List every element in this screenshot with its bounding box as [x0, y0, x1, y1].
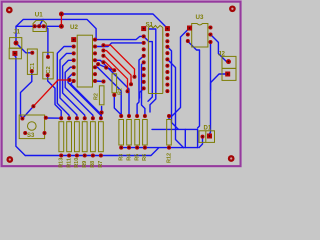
- J2 pad 1: [226, 59, 231, 64]
- svg-text:S1: S1: [146, 22, 154, 29]
- wire U3.r2 to J2.1: [211, 35, 229, 62]
- R1 pads: [112, 68, 116, 72]
- wire S1 left low stub: [140, 88, 144, 98]
- J1 pad 1: [14, 41, 19, 46]
- wire R2 bottom to pad: [101, 107, 103, 113]
- S1 right pad 1 square: [165, 26, 170, 31]
- component J1 outline: [9, 38, 22, 59]
- R2 pads: [102, 80, 106, 84]
- component D1 outline: [199, 131, 215, 143]
- wire net VCC top horizontal: [61, 14, 167, 28]
- component C2 outline: [43, 52, 53, 79]
- svg-text:U3: U3: [196, 14, 204, 21]
- via pads red column: [133, 75, 137, 79]
- wire via3 R1 bottom to R3: [114, 95, 121, 115]
- component S3 outline: [19, 115, 44, 139]
- via pad red pair near U2 pin7: [68, 78, 72, 82]
- via column right of U2: [101, 43, 105, 47]
- wire S1 right to right bus: [167, 59, 183, 147]
- D1 pad 1: [201, 135, 205, 139]
- board edge border: [2, 2, 241, 166]
- C1 pad top: [30, 51, 34, 55]
- component J2 outline: [222, 56, 236, 80]
- wire U1.3 to C2 top: [46, 26, 49, 57]
- component U2 outline: [77, 35, 92, 87]
- wire C2 bottom down: [48, 75, 62, 118]
- svg-text:R9: R9: [82, 161, 88, 168]
- resistor top pads left group: [59, 116, 63, 120]
- component C1 outline: [27, 49, 37, 74]
- wire U2.15 to R2 top: [95, 80, 104, 83]
- U3 pad1 square: [187, 26, 192, 31]
- wire bus y19.4: [16, 19, 96, 39]
- wire bottom bus right: [121, 147, 197, 149]
- svg-text:C1: C1: [30, 62, 36, 70]
- U1 pad 3: [42, 24, 46, 28]
- board edge outer glow: [1, 1, 242, 167]
- mounting hole top-right: [229, 5, 236, 12]
- svg-text:R7: R7: [98, 161, 104, 168]
- resistor row right group R3 R4 R5 R6: [119, 120, 171, 146]
- red wire via2 to red via b: [103, 51, 131, 85]
- svg-text:R1: R1: [118, 88, 124, 95]
- wire J2.2 to vertical: [211, 74, 228, 90]
- svg-text:R6: R6: [142, 154, 148, 161]
- svg-text:U2: U2: [70, 24, 78, 31]
- wire S1 inner vertical: [149, 29, 156, 112]
- mounting hole top-left: [6, 7, 13, 14]
- svg-text:R3: R3: [119, 154, 125, 161]
- svg-text:R13: R13: [58, 158, 64, 168]
- wire U2.8 right to S1: [95, 36, 144, 39]
- D1 pad 2 square: [207, 134, 212, 139]
- C2 pad bottom: [46, 73, 50, 77]
- via pad red S3 net: [31, 104, 35, 108]
- resistor row left group R13 R11 R10 R9 R8 R7: [59, 122, 103, 152]
- wire via to S3.1: [22, 106, 33, 118]
- svg-text:C2: C2: [46, 66, 52, 73]
- wire U1 row horizontal: [16, 25, 61, 27]
- component R2 outline: [99, 86, 104, 105]
- wire U2.2 fan: [57, 47, 73, 119]
- svg-text:R11: R11: [66, 158, 72, 168]
- component U1 outline: [33, 20, 46, 31]
- wire U2.3 fan: [60, 53, 77, 118]
- red wire via4 short: [103, 62, 114, 71]
- right group bottom pads: [119, 146, 123, 150]
- pad pair near top (net pad): [59, 12, 64, 17]
- S3 pads: [20, 117, 24, 121]
- wire U3.r3 to D1.2: [210, 42, 211, 134]
- component S1 outline: [148, 26, 162, 94]
- svg-text:R12: R12: [166, 153, 172, 163]
- S1 left pad 1 square: [141, 26, 146, 31]
- component U3 outline: [192, 24, 208, 48]
- wire S1 inner vertical 2: [144, 36, 153, 101]
- wire U3.1 down to R12: [169, 28, 190, 116]
- wire U2.6 fan: [68, 74, 101, 118]
- wire R12 top up: [168, 116, 170, 119]
- wire U2.12 to R4: [95, 60, 129, 116]
- mounting hole bottom-left: [6, 156, 13, 163]
- C1 pad bottom: [30, 69, 34, 73]
- U2 right pads: [93, 38, 97, 42]
- right group top pads: [119, 114, 123, 118]
- U1 pad 2: [37, 24, 41, 28]
- wire U1.2 stub to bus: [39, 19, 43, 26]
- wire S1 left to R6: [142, 62, 145, 116]
- board background: [0, 0, 244, 169]
- via pads diagonal: [96, 62, 100, 66]
- svg-text:R8: R8: [90, 161, 96, 168]
- component R1 outline: [112, 74, 117, 93]
- svg-text:R10: R10: [74, 158, 80, 168]
- U2 left pads: [72, 45, 76, 49]
- U1 pad 1: [33, 24, 37, 28]
- C2 pad top: [46, 55, 50, 59]
- wire via diagonal link: [98, 64, 114, 70]
- wire U2.9 to S1: [95, 43, 144, 47]
- wire C1 bottom to S3.1: [21, 73, 32, 119]
- wire S3.2 to R13 top: [46, 117, 61, 119]
- S1 left pads: [142, 34, 146, 38]
- wire J1.1 up to U1 row: [15, 26, 17, 43]
- J1 pad 2 square: [12, 51, 17, 56]
- wire mid bus to D1 corner: [152, 129, 198, 147]
- S1 right pads: [165, 33, 169, 37]
- wire R2 bottom to R7 top: [100, 113, 103, 119]
- wire U2.13 to R3: [95, 67, 121, 116]
- wire bus link vertical: [184, 129, 186, 147]
- svg-text:R2: R2: [94, 93, 100, 100]
- svg-text:U1: U1: [35, 12, 43, 19]
- wire J1.1 to C1 top: [16, 43, 32, 53]
- wire D1.1 to bus: [199, 138, 203, 148]
- resistor bottom pads left group: [59, 154, 63, 158]
- wire U2.4 fan: [63, 60, 85, 118]
- svg-text:R4: R4: [126, 153, 132, 161]
- svg-text:J2: J2: [218, 51, 225, 58]
- svg-text:S3: S3: [27, 133, 35, 139]
- U3 left pads: [186, 33, 190, 37]
- wire S1 right col to R12: [167, 47, 178, 130]
- wire U2.7 fan to R2 bottom: [71, 81, 102, 113]
- red wire via3 to red via c: [103, 56, 127, 92]
- wire bottom bus left: [25, 148, 158, 156]
- wire U2.5 fan: [65, 67, 93, 118]
- wire J1.2 to bottom bus: [15, 56, 25, 156]
- J2 pad 2 square: [225, 72, 230, 77]
- mounting hole bottom-right: [228, 155, 235, 162]
- red wire pad61 vertical: [60, 14, 62, 26]
- U3 right pads: [209, 26, 213, 30]
- svg-text:D1: D1: [204, 126, 212, 132]
- svg-text:R5: R5: [134, 154, 140, 161]
- svg-text:J1: J1: [13, 28, 20, 35]
- red wire via pair to via S3: [33, 80, 69, 106]
- wire S1 left col down to R5: [137, 56, 144, 116]
- U2 pad 1 square: [71, 37, 76, 42]
- wire U3 left pad3 down to bus corner: [188, 41, 200, 128]
- red wire via1 to red via a: [103, 45, 134, 77]
